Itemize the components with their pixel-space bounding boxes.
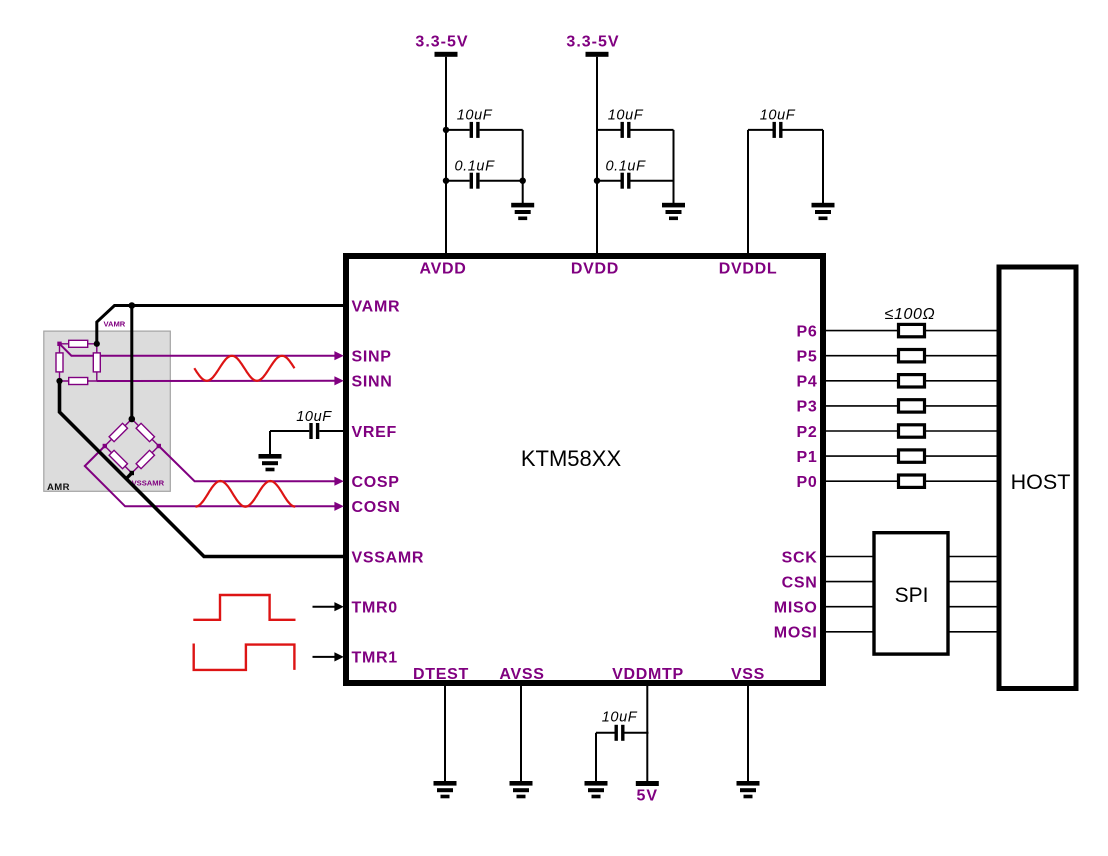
resistor bridge2 bottom-left (109, 450, 127, 468)
junction dot bridge2 top (129, 416, 136, 423)
svg-text:VSSAMR: VSSAMR (132, 478, 165, 487)
arrow SINP into IC (334, 351, 343, 360)
wire P0 (823, 480, 997, 482)
svg-text:MISO: MISO (774, 600, 818, 617)
svg-text:SPI: SPI (895, 584, 929, 607)
capacitor C3 10uF (DVDD) (597, 122, 674, 138)
svg-text:10uF: 10uF (602, 710, 638, 726)
svg-text:DTEST: DTEST (413, 666, 469, 683)
wire DTEST (444, 683, 446, 782)
arrow SINN into IC (334, 376, 343, 385)
bridge 1 wiring (square) (60, 344, 97, 381)
svg-text:0.1uF: 0.1uF (454, 159, 495, 175)
wire CSN right (948, 581, 997, 583)
resistor R3 (P4) (899, 375, 925, 387)
svg-text:5V: 5V (637, 788, 659, 805)
wire TMR0 arrow line (313, 606, 336, 608)
svg-text:MOSI: MOSI (774, 625, 818, 642)
wire COSN from bridge2 left node (85, 446, 335, 506)
svg-text:SINN: SINN (352, 374, 393, 391)
svg-text:COSN: COSN (352, 499, 401, 516)
svg-text:P0: P0 (797, 474, 818, 491)
wire SCK right (948, 556, 997, 558)
capacitor C7 10uF (VDDMTP) (596, 725, 649, 741)
svg-text:VAMR: VAMR (352, 298, 401, 315)
sine wave (COS) (195, 481, 295, 507)
svg-text:DVDD: DVDD (571, 261, 619, 278)
svg-text:TMR1: TMR1 (352, 650, 398, 667)
wire SINN from bridge (97, 380, 335, 382)
resistor R4 (P3) (899, 400, 925, 412)
svg-text:P6: P6 (797, 323, 818, 340)
HOST block (999, 267, 1076, 689)
svg-text:≤100Ω: ≤100Ω (885, 306, 936, 323)
wire CSN left (823, 581, 874, 583)
svg-text:KTM58XX: KTM58XX (521, 446, 622, 471)
capacitor C5 10uF (DVDDL) (748, 122, 823, 138)
power flag 5V (VDDMTP) (636, 781, 659, 805)
wire MISO right (948, 606, 997, 608)
node bridge2 left (103, 444, 107, 448)
svg-text:COSP: COSP (352, 474, 400, 491)
svg-text:AMR: AMR (47, 482, 70, 493)
wire COSP from bridge2 right node (159, 446, 335, 481)
capacitor C6 10uF (VREF) (270, 423, 345, 439)
svg-text:VSS: VSS (731, 666, 765, 683)
svg-text:SCK: SCK (782, 549, 818, 566)
wire VAMR node to bridge2 top (130, 306, 133, 420)
wire DVDDL cap ground rail (822, 130, 824, 203)
wire DVDD cap ground rail (673, 130, 675, 203)
svg-text:P4: P4 (797, 374, 818, 391)
ground (DTEST) (434, 781, 457, 798)
svg-text:VREF: VREF (352, 424, 397, 441)
power flag 3.3-5V (DVDD) (566, 34, 619, 57)
ground (AVDD caps) (511, 203, 534, 220)
capacitor C2 0.1uF (AVDD) (446, 173, 523, 189)
wire VREF ground drop (269, 431, 271, 455)
node bridge2 bottom (130, 471, 134, 475)
svg-text:0.1uF: 0.1uF (605, 159, 646, 175)
wire P6 (823, 330, 997, 332)
junction dot AVDD/C1 (443, 127, 449, 133)
resistor bridge2 bottom-right (136, 450, 154, 468)
wire DVDDL vertical (747, 130, 749, 256)
ground (DVDD caps) (662, 203, 685, 220)
svg-text:10uF: 10uF (760, 108, 796, 124)
wire bridge2 bottom to VSSAMR diagonal (126, 473, 132, 479)
wire VAMR (black) (97, 306, 345, 344)
ground (VREF cap) (259, 454, 282, 471)
wire MISO left (823, 606, 874, 608)
svg-text:P1: P1 (797, 449, 818, 466)
resistor R2 (P5) (899, 350, 925, 362)
wire VDDMTP (646, 683, 648, 782)
resistor R5 (P2) (899, 425, 925, 437)
svg-text:10uF: 10uF (296, 409, 332, 425)
resistor bridge1 top (69, 340, 88, 347)
arrow COSN into IC (334, 502, 343, 511)
wire DVDD supply vertical (596, 57, 598, 256)
junction dot DVDD/C4 (594, 178, 600, 184)
arrow TMR1 into IC (334, 652, 343, 661)
svg-text:SINP: SINP (352, 349, 392, 366)
wire P4 (823, 380, 997, 382)
power flag 3.3-5V (AVDD) (415, 34, 468, 57)
wire SINP from bridge (60, 344, 335, 356)
wire MOSI left (823, 631, 874, 633)
resistor bridge1 left (56, 353, 63, 372)
AMR sensor box (44, 331, 171, 491)
arrow COSP into IC (334, 477, 343, 486)
ground (AVSS) (510, 781, 533, 798)
sine wave (SIN) (194, 356, 294, 381)
square wave TMR0 (193, 595, 295, 620)
capacitor C4 0.1uF (DVDD) (597, 173, 674, 189)
resistor bridge1 bottom (69, 378, 88, 385)
svg-text:VSSAMR: VSSAMR (352, 549, 425, 566)
node bridge2 right (157, 444, 161, 448)
wire SCK left (823, 556, 874, 558)
junction dot C2/ground rail (520, 178, 526, 184)
svg-text:DVDDL: DVDDL (719, 261, 778, 278)
svg-text:TMR0: TMR0 (352, 600, 398, 617)
square wave TMR1 (194, 644, 295, 670)
wire P2 (823, 430, 997, 432)
ground (DVDDL cap) (812, 203, 835, 220)
junction dot VAMR node (129, 302, 136, 309)
svg-text:P5: P5 (797, 349, 818, 366)
wire TMR1 arrow line (313, 656, 336, 658)
wire P3 (823, 405, 997, 407)
wire VSSAMR (black diagonal) (60, 381, 346, 557)
wire AVSS (520, 683, 522, 782)
IC U1 KTM58XX body (346, 256, 823, 683)
svg-text:VDDMTP: VDDMTP (612, 666, 684, 683)
junction dot bridge1 VSSAMR (56, 378, 62, 384)
junction dot bridge1 VAMR (94, 341, 100, 347)
ground (VSS) (737, 781, 760, 798)
wire MOSI right (948, 631, 997, 633)
svg-text:10uF: 10uF (457, 108, 493, 124)
svg-text:HOST: HOST (1011, 470, 1071, 494)
svg-text:3.3-5V: 3.3-5V (566, 34, 619, 51)
svg-text:CSN: CSN (782, 574, 818, 591)
wire P1 (823, 455, 997, 457)
wire AVDD supply vertical (445, 57, 447, 256)
node bridge1 top-left (57, 342, 61, 346)
wire AVDD cap ground rail (522, 130, 524, 203)
svg-text:P2: P2 (797, 424, 818, 441)
resistor R7 (P0) (899, 475, 925, 487)
bridge 2 wiring (diamond) (105, 419, 159, 473)
svg-text:3.3-5V: 3.3-5V (415, 34, 468, 51)
resistor bridge2 top-right (136, 423, 154, 441)
arrow TMR0 into IC (334, 602, 343, 611)
resistor bridge1 right (93, 353, 100, 372)
wire C7 ground drop (595, 733, 597, 782)
wire VSS (747, 683, 749, 782)
svg-text:VAMR: VAMR (104, 320, 126, 329)
ground (C7) (585, 781, 608, 798)
resistor R1 (P6) (899, 324, 925, 336)
svg-text:10uF: 10uF (608, 108, 644, 124)
capacitor C1 10uF (AVDD) (446, 122, 523, 138)
svg-text:P3: P3 (797, 399, 818, 416)
resistor bridge2 top-left (109, 423, 127, 441)
junction dot AVDD/C2 (443, 178, 449, 184)
SPI block (874, 533, 948, 654)
wire P5 (823, 355, 997, 357)
svg-text:AVDD: AVDD (420, 261, 467, 278)
svg-text:AVSS: AVSS (499, 666, 544, 683)
resistor R6 (P1) (899, 450, 925, 462)
